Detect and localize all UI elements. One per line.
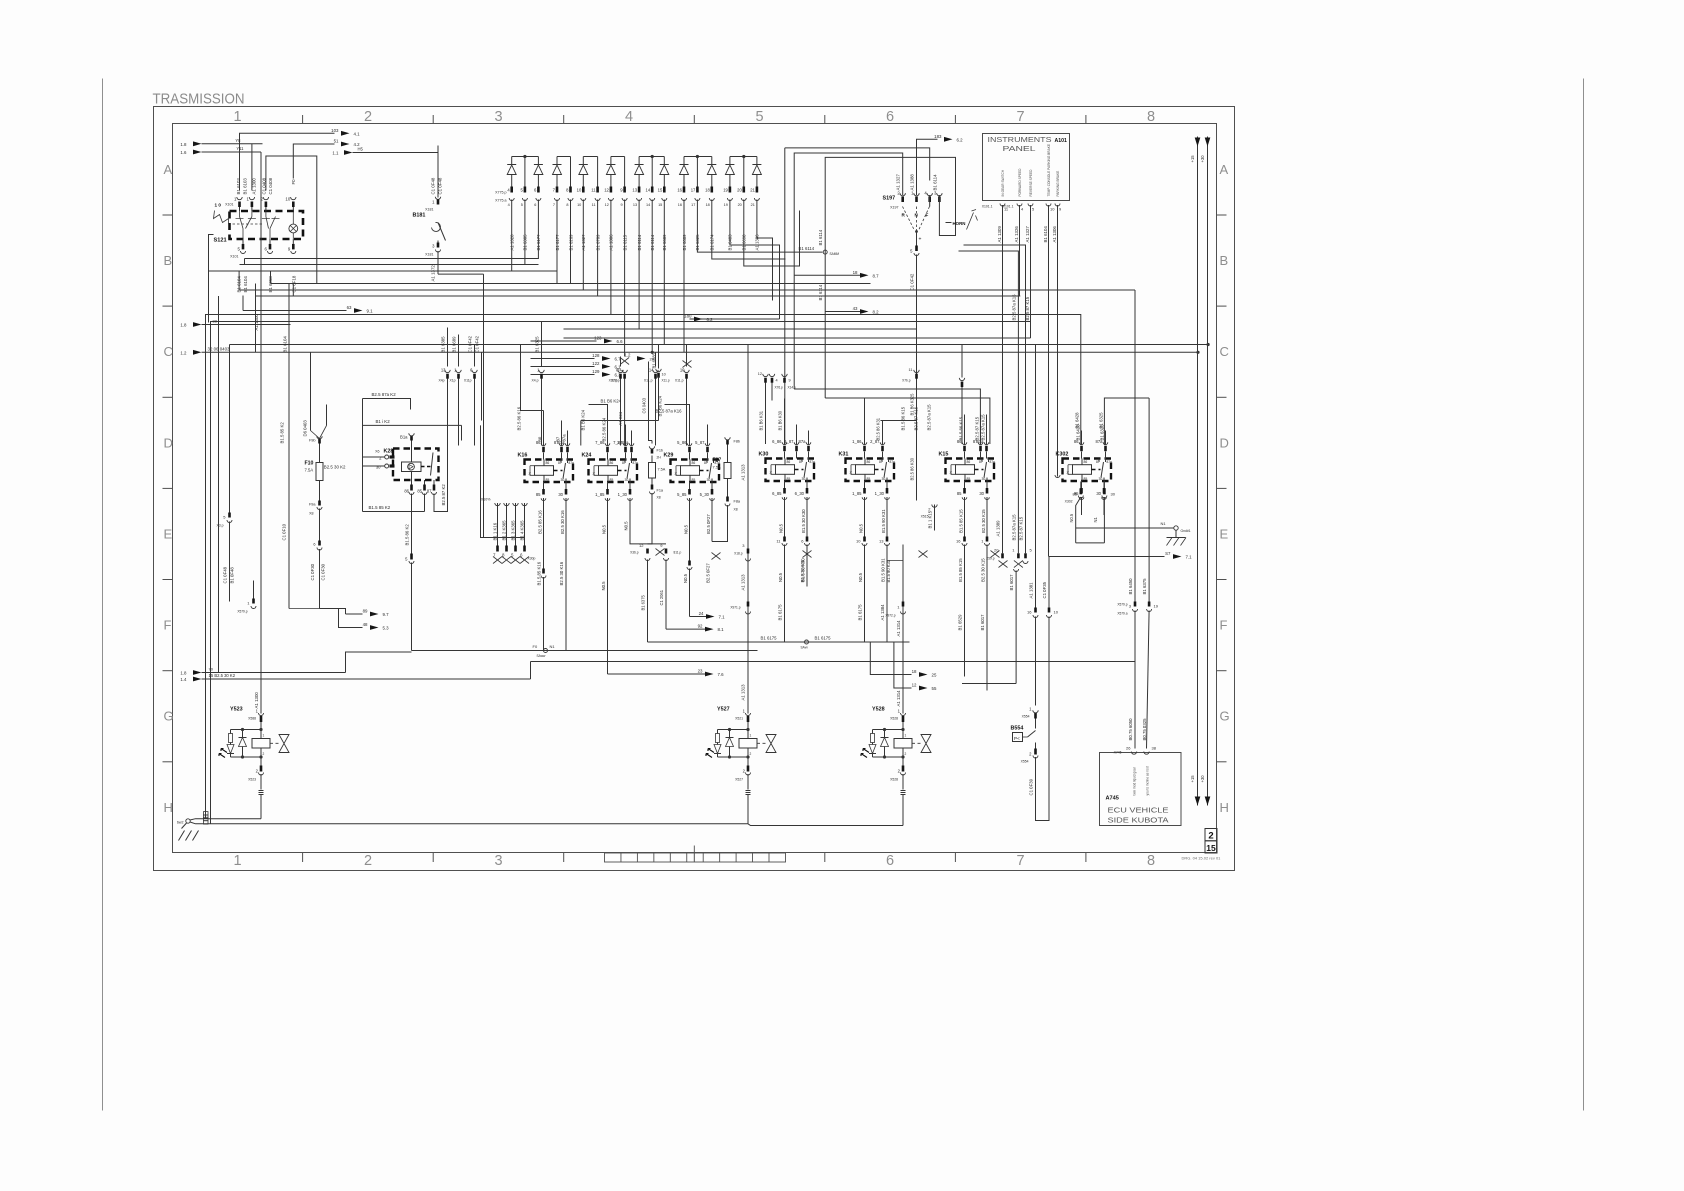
svg-text:F9b: F9b [309,439,316,443]
diode output straight drops [556,216,558,284]
X marks band [620,358,629,365]
svg-text:85: 85 [867,477,871,481]
svg-text:86: 86 [610,461,614,465]
svg-text:30: 30 [558,492,563,497]
svg-text:X101: X101 [230,255,238,259]
svg-text:B2.5 87 K15: B2.5 87 K15 [914,406,919,430]
svg-text:1.1: 1.1 [332,151,339,156]
svg-text:B1 6175: B1 6175 [858,604,863,621]
wire K28 85 down [424,494,426,512]
svg-text:1: 1 [905,734,907,738]
wire left drop 210 [210,321,212,824]
wire K30 feed conns [763,374,768,377]
svg-text:X775.a: X775.a [495,199,506,203]
svg-text:+30: +30 [1200,155,1205,163]
svg-text:4: 4 [508,203,510,207]
svg-text:1 0: 1 0 [215,203,222,208]
svg-text:6.2: 6.2 [957,137,964,142]
svg-text:1_85: 1_85 [595,492,605,497]
svg-text:B2.5 85 K16: B2.5 85 K16 [538,510,543,534]
svg-text:C1 0F42: C1 0F42 [910,273,915,290]
svg-text:14: 14 [646,203,650,207]
wire to K28 pin30 [363,465,385,467]
svg-text:B1.5 90 K31: B1.5 90 K31 [881,509,886,533]
svg-text:B1 6685: B1 6685 [652,353,657,369]
svg-text:1.2: 1.2 [624,353,631,358]
svg-text:K29: K29 [664,453,674,459]
wire C6 0403 to F1 [649,362,653,441]
svg-text:13: 13 [632,188,637,193]
svg-text:30: 30 [982,477,986,481]
svg-text:12: 12 [639,543,644,548]
svg-text:B1.5 85 K2: B1.5 85 K2 [369,505,391,510]
svg-text:B2.5 30 K15: B2.5 30 K15 [981,509,986,533]
svg-text:you to incline as root: you to incline as root [1146,766,1150,795]
wire vertical x483 [483,274,485,537]
svg-text:B1 6175: B1 6175 [815,636,832,641]
diode leg 13 [683,157,685,165]
svg-text:85: 85 [1084,477,1088,481]
wire S121 pin2 up loop right [266,156,317,284]
svg-text:70: 70 [209,667,214,672]
svg-text:C1 0408: C1 0408 [268,177,273,194]
svg-text:15: 15 [1206,843,1216,853]
svg-text:10: 10 [856,539,861,544]
svg-text:K30: K30 [759,452,769,458]
svg-text:X11p: X11p [464,379,472,383]
svg-text:N1: N1 [1161,521,1167,526]
svg-text:PARKING BRAKE: PARKING BRAKE [1056,171,1060,197]
svg-text:F: F [1220,618,1228,633]
frame coordinate labels [164,109,1230,869]
svg-text:X30p: X30p [528,557,536,561]
svg-text:10: 10 [577,188,582,193]
svg-text:F0: F0 [291,179,296,185]
svg-text:B1 0F48: B1 0F48 [229,567,234,584]
bus junction dots [1207,343,1210,346]
svg-text:12: 12 [758,372,762,376]
svg-text:H5: H5 [358,147,364,152]
svg-text:11: 11 [592,203,596,207]
svg-text:N0.5: N0.5 [602,524,607,534]
svg-text:C: C [1220,344,1229,359]
svg-text:G: G [1220,709,1230,724]
X under K29 left [712,553,721,560]
relay K30 [766,459,815,482]
svg-text:87a: 87a [799,439,807,444]
svg-text:B1 6103: B1 6103 [242,178,247,195]
svg-text:X101.1: X101.1 [982,205,993,209]
svg-text:1: 1 [233,109,241,125]
svg-text:89: 89 [363,609,368,614]
wire y420 left link [581,420,659,422]
wire S121 pin1b up [251,144,253,191]
svg-text:Y528: Y528 [872,707,885,713]
K29 drops [689,498,691,561]
svg-text:B2.5 87a K15: B2.5 87a K15 [1011,294,1016,321]
svg-text:B1 B6 K31: B1 B6 K31 [759,410,764,430]
wire bus 337 [564,337,1031,339]
svg-text:K302: K302 [1056,452,1069,458]
svg-text:7.1: 7.1 [719,615,726,620]
svg-text:B2.5 0F27: B2.5 0F27 [706,563,711,583]
svg-text:17: 17 [691,188,696,193]
svg-text:6_87: 6_87 [784,439,794,444]
switch unit S121 [230,211,304,239]
svg-text:C6 0403: C6 0403 [642,397,647,413]
svg-text:B1.5 86 K15: B1.5 86 K15 [959,416,964,440]
wire K24 87 feed [622,370,627,373]
svg-text:N1: N1 [550,644,556,649]
svg-text:26: 26 [1126,746,1131,751]
svg-text:B1 6017: B1 6017 [980,614,985,631]
svg-text:85: 85 [787,477,791,481]
wire bus C1 [230,344,1209,346]
svg-text:X554: X554 [1022,715,1030,719]
svg-text:S197: S197 [883,196,896,202]
svg-text:+15: +15 [1190,155,1195,163]
svg-text:2: 2 [364,109,372,125]
S121 top pins [237,197,242,200]
svg-text:X7b.p: X7b.p [902,379,911,383]
svg-text:7.1: 7.1 [1186,555,1193,560]
svg-text:C1 2061: C1 2061 [659,589,664,605]
svg-text:X11.p: X11.p [675,379,684,383]
svg-text:B554: B554 [1011,726,1024,732]
wire S197 loop L1 [785,148,930,181]
svg-text:1.6: 1.6 [180,150,187,155]
svg-text:X527: X527 [735,778,743,782]
instruments panel A101 [983,134,1070,201]
K302 drops [1080,482,1082,489]
horn symbol [946,222,952,224]
svg-text:ECU VEHICLE: ECU VEHICLE [1108,806,1169,815]
svg-text:1_30: 1_30 [875,491,885,496]
svg-text:87a: 87a [569,461,575,465]
diode leg 8 [610,157,612,165]
svg-text:10: 10 [680,368,685,373]
instruments panel pins [1000,204,1005,207]
svg-text:B181: B181 [413,213,426,219]
revision table strip [605,853,786,862]
svg-text:5.3: 5.3 [383,626,390,631]
svg-text:X972.p: X972.p [885,614,895,618]
svg-text:8: 8 [1147,109,1155,125]
svg-text:X4.p: X4.p [532,379,539,383]
wire left bus links [245,258,512,260]
svg-text:B1.5 86 K2: B1.5 86 K2 [405,524,410,546]
svg-text:B2.5 87a K16: B2.5 87a K16 [656,409,683,414]
svg-text:5_86: 5_86 [677,440,687,445]
svg-text:B0.75 6050: B0.75 6050 [1128,718,1133,741]
wire bus 295 [256,295,1021,297]
svg-text:19: 19 [723,188,728,193]
wire 270 drop [270,271,272,283]
svg-text:FORWARD SPEED: FORWARD SPEED [1018,168,1022,197]
wire B1 6175 line [648,641,910,643]
wire ECU 26 up [1134,290,1136,602]
svg-text:21: 21 [751,203,755,207]
svg-text:HORN: HORN [953,221,966,226]
svg-text:10: 10 [1054,610,1059,615]
svg-text:A1 1389: A1 1389 [996,520,1001,537]
diode leg 16 [729,157,731,165]
svg-text:18: 18 [705,188,710,193]
wire ground bus upper [190,819,261,820]
wire B554 down U [1036,617,1050,821]
svg-text:86: 86 [967,460,971,464]
svg-text:2: 2 [364,853,372,869]
svg-text:B1.5 85 K16: B1.5 85 K16 [537,561,542,585]
svg-text:X78.p: X78.p [611,379,620,383]
wire K28 left loop [362,399,364,512]
svg-text:Y8: Y8 [235,138,241,143]
svg-text:85: 85 [546,478,550,482]
svg-text:B1.5 30 K30: B1.5 30 K30 [801,509,806,533]
svg-text:B1.5 86 K15: B1.5 86 K15 [901,406,906,430]
svg-text:K31: K31 [839,452,849,458]
svg-text:2: 2 [1208,831,1213,842]
svg-text:30: 30 [376,465,381,470]
svg-text:30: 30 [1096,491,1101,496]
svg-text:B1a: B1a [400,435,408,440]
svg-text:E: E [164,526,173,541]
svg-text:X523: X523 [248,778,256,782]
svg-text:2H: 2H [657,456,662,460]
svg-text:B2.5 87 K15: B2.5 87 K15 [1019,516,1024,540]
svg-text:A101: A101 [1055,138,1068,144]
border frame [154,107,1235,871]
svg-text:B1 6114: B1 6114 [933,174,938,191]
relay K24 [589,460,638,483]
svg-text:92: 92 [698,624,703,629]
svg-text:87a: 87a [890,460,896,464]
svg-text:B1 6114: B1 6114 [799,246,815,251]
diode leg 3 [537,157,539,165]
svg-text:7: 7 [1016,853,1024,869]
svg-text:B1 6175: B1 6175 [778,604,783,621]
svg-text:B1 6104: B1 6104 [283,336,288,353]
svg-text:TRASMISSION: TRASMISSION [153,92,245,108]
svg-text:X4p: X4p [438,379,444,383]
svg-text:51: 51 [334,139,339,144]
svg-text:P<: P< [1014,736,1020,741]
wire 92 / 8.1 arrow [666,628,706,630]
K24 drops [607,498,609,674]
svg-text:10: 10 [285,197,290,202]
svg-text:86: 86 [546,461,550,465]
svg-text:F9a: F9a [309,503,316,507]
relay K16 [525,460,574,483]
svg-text:K24: K24 [582,453,592,459]
svg-text:87a: 87a [810,460,816,464]
svg-text:6: 6 [886,853,894,869]
svg-text:85: 85 [610,478,614,482]
svg-text:A1 1313: A1 1313 [741,464,746,481]
svg-text:C1 0F48: C1 0F48 [431,177,436,194]
wire F1a to B1 6175 line [648,506,653,544]
K30 drops [784,497,786,537]
svg-text:N1: N1 [1093,517,1098,523]
svg-text:D6 0403: D6 0403 [303,420,308,437]
K31 drops [864,497,866,537]
svg-text:5: 5 [755,109,763,125]
wire S121 pin5 drop [242,296,244,311]
svg-text:8: 8 [1147,853,1155,869]
svg-text:8.7: 8.7 [873,273,880,278]
svg-text:E: E [1220,526,1229,541]
svg-text:A1 1381: A1 1381 [1029,582,1034,599]
wire S121 pin6 drop [269,295,271,298]
svg-text:X971.p: X971.p [730,606,740,610]
svg-text:18: 18 [853,270,858,275]
svg-text:13: 13 [441,368,446,373]
svg-text:X302: X302 [1065,500,1073,504]
svg-text:10: 10 [662,373,666,377]
svg-text:13: 13 [633,203,637,207]
svg-text:Y523: Y523 [230,707,243,713]
diode leg 7 [597,157,599,187]
svg-text:N0.5: N0.5 [778,572,783,582]
svg-text:X528: X528 [890,717,898,721]
svg-text:B2.5 30 K16: B2.5 30 K16 [559,561,564,585]
wire K16 85 down [543,498,545,531]
svg-text:Y11: Y11 [236,146,244,151]
diode leg 1 [511,157,513,165]
svg-text:B2.5 30 K16: B2.5 30 K16 [560,510,565,534]
svg-text:3: 3 [494,853,502,869]
arrows 25/55 [870,642,911,675]
svg-text:N0.5: N0.5 [1069,513,1074,522]
svg-text:B2.5 0F27: B2.5 0F27 [706,514,711,534]
svg-text:REVERSE SPEED: REVERSE SPEED [1029,169,1033,197]
svg-text:9: 9 [620,203,622,207]
svg-text:15: 15 [658,203,662,207]
svg-text:85: 85 [417,489,422,494]
ground E symbol [1175,530,1177,537]
svg-text:6w2: 6w2 [177,821,184,825]
svg-text:87a: 87a [633,461,639,465]
svg-text:B1.5 85 K2: B1.5 85 K2 [280,422,285,444]
twisted X under K15 [919,551,928,558]
svg-text:X554: X554 [1021,760,1029,764]
svg-text:B1 6450: B1 6450 [1128,578,1133,595]
svg-text:B2.5 87 K15: B2.5 87 K15 [1025,296,1030,320]
svg-text:X197: X197 [890,206,898,210]
svg-text:3: 3 [494,109,502,125]
svg-text:12: 12 [604,188,609,193]
diode output wires left bends [209,216,512,272]
wire x229 drop with connector [229,345,231,513]
wire left drop 218 [218,296,220,673]
svg-text:7.5A: 7.5A [713,465,722,470]
svg-text:A1 1306: A1 1306 [1052,226,1057,243]
frame ticks [302,115,304,124]
wire Y527 down [747,795,749,824]
svg-text:B1 6375: B1 6375 [1142,578,1147,595]
svg-text:15 B2.5 30 K2: 15 B2.5 30 K2 [209,673,236,678]
svg-text:B1 6017: B1 6017 [1009,574,1014,591]
wire S197 loop L2 [794,153,903,389]
svg-text:85: 85 [692,478,696,482]
svg-text:7.5A: 7.5A [305,468,314,473]
svg-text:B1 6428: B1 6428 [1075,412,1080,429]
svg-text:87: 87 [556,436,561,441]
svg-text:G: G [164,709,174,724]
wire 43 / 8.2 arrow [825,311,860,313]
svg-text:43: 43 [853,306,858,311]
svg-text:17: 17 [691,203,695,207]
svg-text:11: 11 [591,188,596,193]
svg-text:B1 6325: B1 6325 [535,336,540,353]
svg-text:A1 1314: A1 1314 [896,690,901,707]
wire K302 bottom U link [1076,542,1105,544]
inline connectors on ground bus [204,815,209,818]
K15 drops [964,497,966,537]
svg-text:6.6: 6.6 [617,339,624,344]
diode leg 2 [524,157,526,187]
svg-text:X76.p: X76.p [775,386,784,390]
wire bus 282 [271,283,871,285]
svg-text:8.1: 8.1 [718,627,725,632]
diode leg 15 [711,157,713,165]
svg-text:Y527: Y527 [717,707,730,713]
svg-text:13: 13 [879,539,884,544]
S121 bottom pins [242,239,244,244]
svg-text:1_30: 1_30 [618,492,628,497]
svg-text:A: A [1220,162,1229,177]
svg-text:+: + [919,237,922,243]
diode leg 12 [663,157,665,165]
svg-text:+30: +30 [1200,775,1205,783]
svg-text:30: 30 [707,478,711,482]
svg-text:B2.5 87a K2: B2.5 87a K2 [372,392,397,397]
svg-text:12: 12 [605,203,609,207]
svg-text:1: 1 [750,734,752,738]
svg-text:B1 B6 K24: B1 B6 K24 [601,399,622,404]
svg-text:X588: X588 [248,717,256,721]
wire bus C2 [202,351,1199,353]
svg-text:55: 55 [932,686,937,691]
svg-text:23: 23 [698,669,703,674]
svg-text:85: 85 [536,492,541,497]
svg-text:11: 11 [909,368,913,372]
diode leg 17 [743,157,745,187]
svg-text:2: 2 [750,752,752,756]
svg-text:K16: K16 [518,453,528,459]
relay top feed wires [543,431,545,446]
svg-text:D: D [164,435,173,450]
svg-text:38: 38 [1152,746,1157,751]
diode leg 14 [696,157,698,187]
svg-text:129: 129 [592,369,600,374]
svg-text:30: 30 [1111,492,1116,497]
svg-text:9: 9 [789,379,791,383]
svg-text:B1.5 90 K31: B1.5 90 K31 [881,558,886,582]
wire 63 / 9.1 arrow [243,310,347,312]
svg-text:10: 10 [1050,207,1055,212]
svg-text:1.8: 1.8 [180,671,187,676]
diode leg 11 [651,157,653,187]
svg-text:X18.p: X18.p [734,552,743,556]
wire 24 / 7.1 arrow from K29 85 [690,616,707,618]
svg-text:87a: 87a [562,434,567,442]
svg-text:74: 74 [617,368,621,372]
svg-text:122: 122 [592,361,600,366]
svg-text:X775.p: X775.p [495,191,506,195]
wire panel pin9 end [1055,475,1060,478]
svg-text:4.1: 4.1 [354,131,361,136]
